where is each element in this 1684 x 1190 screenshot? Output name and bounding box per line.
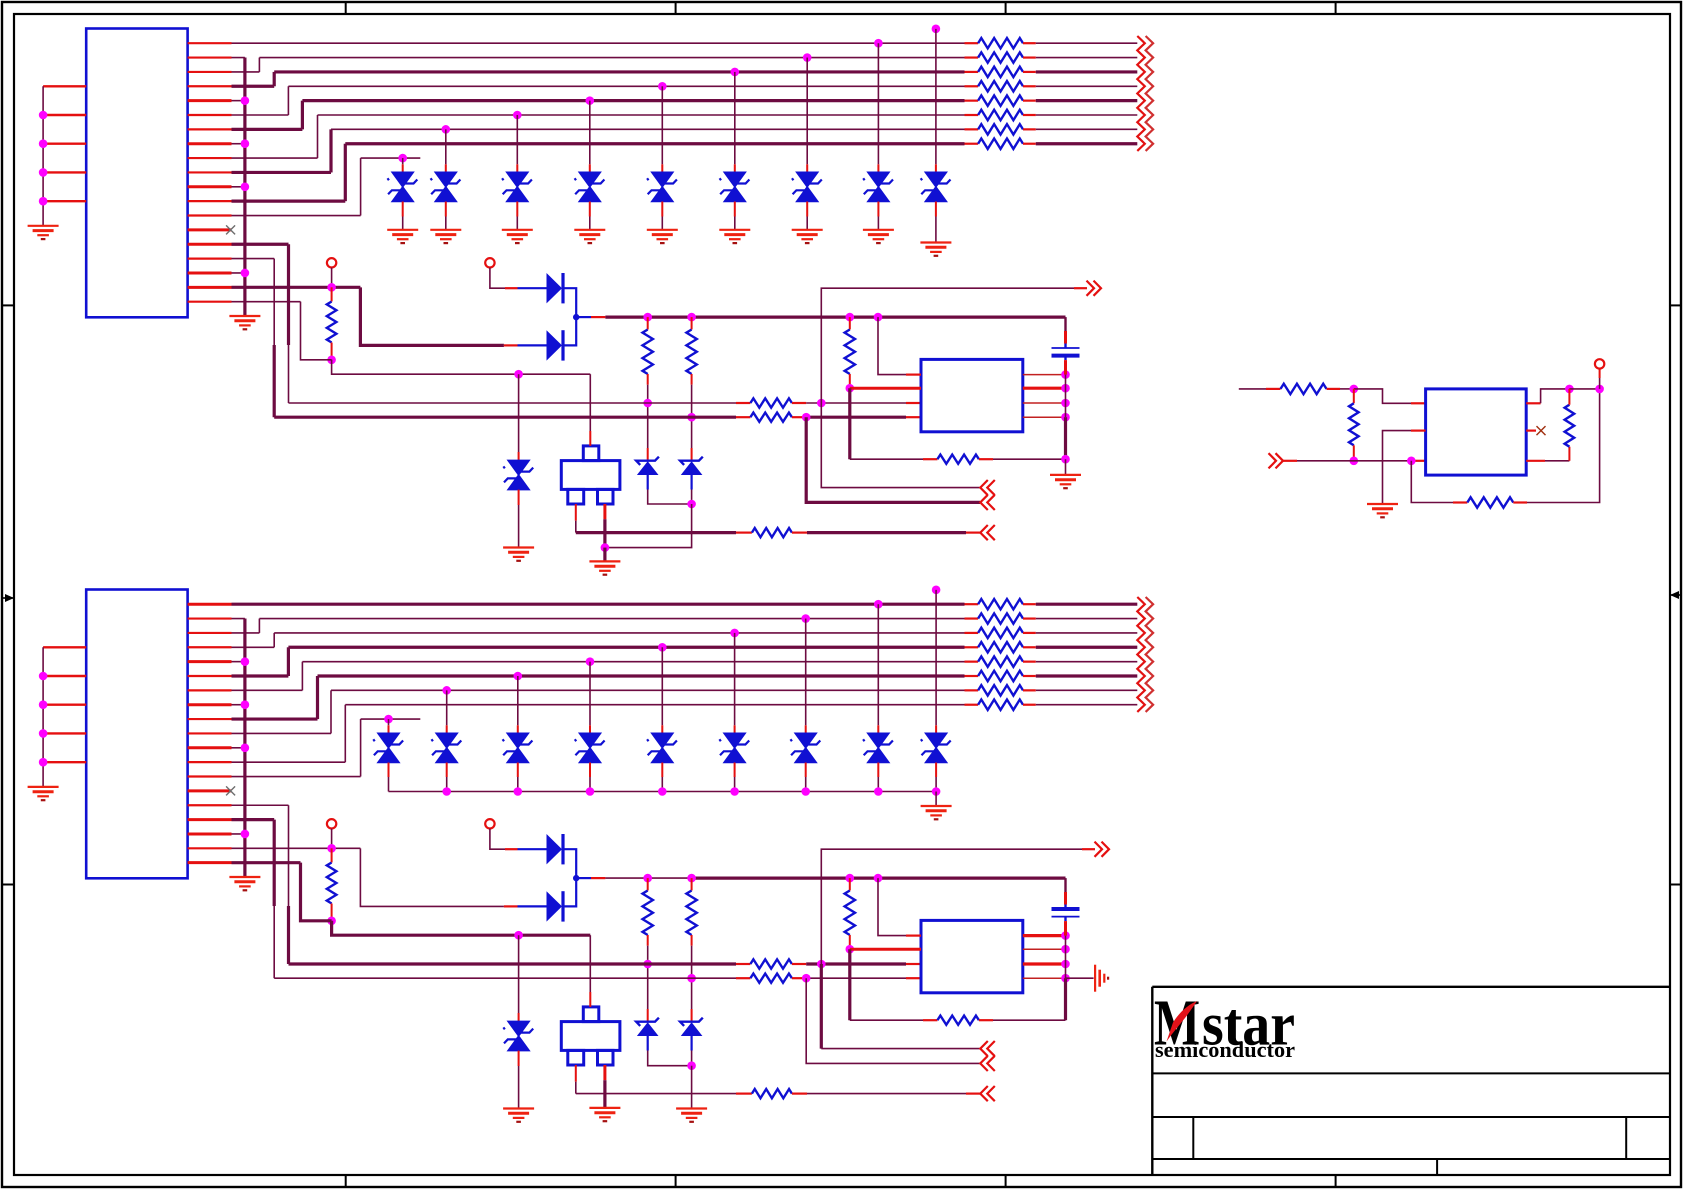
connector J1 xyxy=(86,29,187,318)
wire pin2 rail down xyxy=(848,388,851,459)
wire rail to ground xyxy=(935,792,937,807)
off-page connector rowAb xyxy=(987,1041,995,1056)
resistor R5 lead right xyxy=(1023,100,1036,102)
wire TVS D8 up lead xyxy=(877,43,879,164)
wire rail ground xyxy=(1065,459,1067,475)
resistor R29 lead top xyxy=(331,848,333,862)
off-page bus connector xyxy=(1137,36,1145,151)
wire TVS D29 down lead xyxy=(935,763,937,778)
resistor R21 xyxy=(978,599,1023,609)
resistor R15 lead right xyxy=(792,531,807,533)
junction J1 left rail xyxy=(39,111,48,120)
TVS diode D28 xyxy=(868,733,889,748)
resistor R6 xyxy=(978,110,1023,120)
test point TP5 xyxy=(1595,359,1604,368)
junction out node1 xyxy=(1565,385,1574,394)
junction TVS D3 to row xyxy=(513,111,522,120)
ground of D2 xyxy=(430,229,461,231)
wire D11 anode stub xyxy=(504,344,518,346)
resistor bank R23 lead left xyxy=(965,632,979,634)
wire IC row y978 xyxy=(274,977,736,979)
wire IC row y978 right xyxy=(806,977,906,979)
wire TVS D29 up lead xyxy=(935,590,937,725)
wire J2 pin6 jog up xyxy=(287,647,290,676)
wire cap top xyxy=(1064,317,1066,331)
junction TVS D1 to row xyxy=(398,154,407,163)
TVS diode D12 xyxy=(508,460,529,475)
J1 pin 8 stub xyxy=(188,142,232,145)
wire bus row2 xyxy=(259,618,964,620)
wire diode output row xyxy=(576,316,591,318)
test point TP2 xyxy=(485,258,494,267)
wire J2 pin1 bus row1 xyxy=(232,603,965,606)
resistor bank R26 lead left xyxy=(965,675,979,677)
wire R13 to zener xyxy=(647,385,649,448)
resistor R21b xyxy=(1467,497,1513,507)
wire J1 pin9 run xyxy=(232,157,318,159)
wire feedback rowb xyxy=(850,1019,923,1021)
junction D26 on rail xyxy=(730,787,739,796)
wire TVS D28 down lead xyxy=(877,763,879,778)
wire R33 to zener xyxy=(647,946,649,1009)
wire pin15 downb xyxy=(288,805,290,906)
wire zener common down xyxy=(605,504,692,548)
resistor R9 lead top xyxy=(331,287,333,301)
junction output R30b xyxy=(643,874,652,883)
wire pin16 downb xyxy=(273,820,276,906)
wire J1 pin3 run xyxy=(232,71,260,73)
wire feedback row rightb xyxy=(993,1019,1066,1021)
wire bus row5 xyxy=(302,661,964,663)
junction TVS D26 to row xyxy=(730,629,739,638)
junction rail pin 1b xyxy=(1061,931,1070,940)
J1 pin 1 stub xyxy=(188,42,232,44)
junction box ground xyxy=(601,543,610,552)
junction J1 left rail xyxy=(39,168,48,177)
resistor R37 lead right xyxy=(792,977,806,979)
resistor bank R4 lead left xyxy=(965,85,979,87)
J1 pin 16 stub xyxy=(188,258,232,260)
junction R12 pin2 xyxy=(846,384,855,393)
wire zener D34 bottom xyxy=(690,1036,692,1051)
resistor R34 lead top xyxy=(691,878,693,890)
J1 pin 15 stub xyxy=(188,243,232,246)
wire row6 to off-page xyxy=(1036,674,1138,677)
TVS diode D21 xyxy=(378,733,399,748)
off-page connector rowBb xyxy=(987,1056,995,1071)
resistor R32 xyxy=(845,891,855,936)
resistor R17 lead left xyxy=(736,416,750,418)
junction zener 1 row xyxy=(643,399,652,408)
wire bus row6 xyxy=(318,674,965,677)
resistor R14 lead bottom xyxy=(691,374,693,385)
wire TVS mid downb xyxy=(518,1051,520,1066)
wire TVS D8 down lead xyxy=(877,202,879,217)
junction TVS D21 to row xyxy=(384,715,393,724)
junction rowB branchb xyxy=(802,974,811,983)
J1 left pin stub 5 xyxy=(43,200,86,202)
resistor R37 lead left xyxy=(736,977,750,979)
resistor R19 lead right xyxy=(1327,388,1341,390)
wire J2 pin7 jog up xyxy=(301,662,303,691)
ground of D1 xyxy=(387,229,418,231)
wire TVS D4 up lead xyxy=(589,101,591,165)
zener diode D34 xyxy=(681,1022,703,1036)
wire row5 to off-page xyxy=(1036,661,1138,663)
junction J1 pin11 on ground bus xyxy=(232,186,245,188)
wire box rowb xyxy=(576,1093,736,1095)
ground of J1 bus xyxy=(229,315,260,317)
IC U3 xyxy=(921,920,1023,992)
ground of U2 xyxy=(1367,503,1398,505)
junction D23 on rail xyxy=(514,787,523,796)
resistor R9 lead bottom xyxy=(331,343,333,360)
wire bus row6 xyxy=(318,114,965,116)
wire pin18 to D2b xyxy=(360,848,504,906)
junction output R31b xyxy=(687,874,696,883)
wire node to U2 pin1 xyxy=(1354,389,1411,403)
wire TP2 lead xyxy=(490,268,505,289)
wire row3 to off-page xyxy=(1036,70,1138,73)
wire U1 right pin 1 xyxy=(1023,374,1066,376)
wire J1 pin6 run xyxy=(232,114,289,116)
off-page connector outb xyxy=(1095,842,1103,857)
junction J2 pin17 on ground bus xyxy=(232,833,245,835)
ground of zeners b xyxy=(676,1107,707,1109)
junction R9 bottom xyxy=(327,356,336,365)
junction J1 left rail xyxy=(39,197,48,206)
wire TVS feed row xyxy=(361,718,421,720)
resistor bank R21 lead left xyxy=(965,603,979,605)
junction LDO in node xyxy=(1350,385,1359,394)
wire R34 to zener xyxy=(691,946,693,1009)
resistor R24 xyxy=(978,642,1023,652)
wire U3 right pin 1 xyxy=(1023,934,1066,937)
wire TP3 lead xyxy=(331,829,333,849)
resistor R16 lead right xyxy=(792,402,806,404)
wire pin19 downb xyxy=(301,863,332,921)
ground of D8 xyxy=(863,229,894,231)
off-page connector out xyxy=(1087,281,1095,296)
junction J2 left rail xyxy=(39,729,48,738)
junction J2 pin8 on ground bus xyxy=(232,704,245,706)
wire rowA to off-page xyxy=(821,403,980,488)
ground of D9 xyxy=(920,241,951,243)
wire U1 right pin 2 xyxy=(1023,387,1066,390)
resistor R25 lead right xyxy=(1023,661,1036,663)
wire TVS D25 up lead xyxy=(661,647,663,725)
wire row2 to off-page xyxy=(1036,57,1138,59)
J1 pin 11 stub xyxy=(188,185,232,188)
wire TVS D21 up lead xyxy=(388,719,390,725)
wire box left tab downb xyxy=(575,1065,577,1082)
resistor R32 lead top xyxy=(849,878,851,890)
wire J2 pin10 jog up xyxy=(330,690,332,733)
resistor bank R22 lead left xyxy=(965,617,979,619)
wire TVS D2 up lead xyxy=(445,129,447,164)
junction rail pin 4 xyxy=(1061,413,1070,422)
wire U1 right pin 3 xyxy=(1023,402,1066,404)
wire U2 sense pin xyxy=(1526,460,1545,462)
J2 left pin stub 2 xyxy=(43,675,86,677)
wire J1 pin1 bus row1 xyxy=(232,42,965,44)
wire TVS D22 down lead xyxy=(446,763,448,778)
junction D24 on rail xyxy=(586,787,595,796)
off-page bus connector xyxy=(1137,597,1145,712)
junction D25 on rail xyxy=(658,787,667,796)
wire J2 pin3 run xyxy=(232,632,260,634)
junction TVS D5 to row xyxy=(658,82,667,91)
wire J1 pin9 jog up xyxy=(317,115,319,158)
wire J1 pin10 run xyxy=(232,171,332,174)
junction out node2 xyxy=(1595,385,1604,394)
resistor R15 lead left xyxy=(736,531,752,533)
resistor R27 lead right xyxy=(1023,689,1036,691)
J1 pin 6 stub xyxy=(188,114,232,116)
TVS diode D8 xyxy=(868,172,889,187)
wire IC row y964 right xyxy=(806,962,906,965)
wire railb xyxy=(1065,936,1067,979)
wire J1 pin7 jog up xyxy=(301,101,304,130)
wire row4 to off-page xyxy=(1036,646,1138,649)
wire bus row8 xyxy=(345,704,964,706)
wire feedback row xyxy=(850,458,923,460)
resistor bank R27 lead left xyxy=(965,689,979,691)
resistor R22b lead top xyxy=(1568,389,1570,405)
J1 pin 3 stub xyxy=(188,71,232,73)
no-connect J2 pin14 xyxy=(226,786,235,795)
ground of J2 left xyxy=(28,786,59,788)
J2 left pin stub 4 xyxy=(43,732,86,734)
TVS diode D9 xyxy=(925,172,946,187)
junction TVS midb xyxy=(514,931,523,940)
junction J2 left rail xyxy=(39,700,48,709)
junction TVS D23 to row xyxy=(514,672,523,681)
junction TVS D4 to row xyxy=(586,96,595,105)
junction J2 left rail xyxy=(39,758,48,767)
junction D27 on rail xyxy=(801,787,810,796)
wire TVS D1 down lead xyxy=(402,202,404,217)
J2 pin 1 stub xyxy=(188,603,232,606)
wire bus row2 xyxy=(259,57,964,59)
J2 pin 2 stub xyxy=(188,617,232,619)
wire rowA to off-pageb xyxy=(820,964,823,1049)
J1 pin 18 stub xyxy=(188,286,232,289)
resistor R12 lead top xyxy=(849,317,851,329)
wire J pin15 runb xyxy=(232,804,289,806)
resistor R2 xyxy=(978,52,1023,62)
J2 pin 16 stub xyxy=(188,818,232,821)
TVS diode D4 xyxy=(579,172,600,187)
wire bus row5 xyxy=(302,99,964,102)
resistor R29 lead bottom xyxy=(331,904,333,921)
off-page connector box row xyxy=(987,525,995,540)
TVS diode D6 xyxy=(724,172,745,187)
ground of TVS rail xyxy=(921,805,952,807)
capacitor C1 xyxy=(1052,347,1080,349)
J1 pin 17 stub xyxy=(188,271,232,274)
wire row6 to off-page xyxy=(1036,114,1138,116)
resistor R20 lead bottom xyxy=(1353,445,1355,461)
TVS diode D24 xyxy=(579,733,600,748)
wire J1 pin7 run xyxy=(232,128,303,131)
resistor R13 xyxy=(643,330,653,375)
resistor R4 lead right xyxy=(1023,85,1036,87)
resistor bank R2 lead left xyxy=(965,56,979,58)
wire TVS D6 up lead xyxy=(734,72,736,164)
junction TVS D24 to row xyxy=(586,657,595,666)
junction TVS D28 to row xyxy=(874,600,883,609)
resistor R19 lead left xyxy=(1266,388,1281,390)
J1 pin 9 stub xyxy=(188,157,232,159)
junction rail pin 3 xyxy=(1061,399,1070,408)
junction output senseb xyxy=(874,874,883,883)
resistor R12 xyxy=(845,330,855,375)
resistor R22b xyxy=(1565,405,1575,447)
wire bus row4 xyxy=(288,646,964,649)
junction zener 1 rowb xyxy=(643,960,652,969)
J2 pin 6 stub xyxy=(188,675,232,677)
wire TVS D2 down lead xyxy=(445,202,447,217)
wire TP1 lead xyxy=(331,268,333,288)
junction TVS D6 to row xyxy=(731,68,740,77)
wire row2 to off-page xyxy=(1036,618,1138,620)
junction diode outputsb xyxy=(573,875,579,881)
filter FL2 body xyxy=(561,1022,620,1051)
resistor R24 lead right xyxy=(1023,646,1036,648)
wire J pin18 runb xyxy=(232,847,361,849)
wire J2 pin3 jog up xyxy=(258,619,260,633)
junction J2 left rail xyxy=(39,672,48,681)
wire box row rightb xyxy=(807,1093,966,1095)
filter FL2 tab left xyxy=(568,1050,584,1065)
wire TVS D6 down lead xyxy=(734,202,736,217)
wire J1 pin2 to ground bus xyxy=(232,57,245,59)
junction rail pin 1 xyxy=(1061,370,1070,379)
resistor R17 lead right xyxy=(792,416,806,418)
resistor R21b lead right xyxy=(1513,501,1527,503)
resistor R34 lead bottom xyxy=(691,935,693,946)
wire TVS feed row xyxy=(361,157,421,159)
wire TVS D28 up lead xyxy=(877,604,879,725)
wire TVS mid lead xyxy=(518,374,520,452)
resistor R4 xyxy=(978,81,1023,91)
wire cap topb xyxy=(1064,878,1066,892)
wire bus row3 xyxy=(274,70,964,73)
wire TVS D5 down lead xyxy=(661,202,663,217)
junction TVS D9 to row xyxy=(932,25,941,34)
wire zener D33 bottom xyxy=(647,1036,649,1051)
wire sense to U1 pin1 xyxy=(878,317,906,375)
resistor R16 xyxy=(750,398,792,407)
junction output R11 xyxy=(687,313,696,322)
junction output R32b xyxy=(846,874,855,883)
wire TVS D23 down lead xyxy=(517,763,519,778)
TVS diode D22 xyxy=(436,733,457,748)
junction D28 on rail xyxy=(874,787,883,796)
wire IC row y417 right xyxy=(806,416,906,419)
resistor bank R5 lead left xyxy=(965,100,979,102)
wire bus row4 xyxy=(288,85,964,87)
wire TVS D3 up lead xyxy=(516,115,518,164)
J2 pin 3 stub xyxy=(188,632,232,634)
J1 pin 13 stub xyxy=(188,214,232,216)
resistor bank R1 lead left xyxy=(965,42,979,44)
resistor R12 lead bottom xyxy=(849,374,851,386)
J1 pin 14 stub xyxy=(188,228,232,231)
ground of J1 left xyxy=(28,225,59,227)
wire box left tab down xyxy=(575,504,577,521)
wire bus row7 xyxy=(331,128,965,130)
filter FL1 tab left xyxy=(568,489,584,504)
J2 pin 12 stub xyxy=(188,761,232,763)
junction TVS D29 to row xyxy=(932,586,941,595)
wire J1 pin6 jog up xyxy=(287,86,289,115)
wire enable row xyxy=(1283,460,1297,462)
wire row8 to off-page xyxy=(1036,142,1138,145)
wire J pin16 run xyxy=(232,258,275,260)
resistor R23 lead right xyxy=(1023,632,1036,634)
ground of TVS midb xyxy=(503,1107,534,1109)
resistor R13 lead bottom xyxy=(647,374,649,385)
wire pin19 down xyxy=(301,302,332,360)
wire J2 pin6 run xyxy=(232,674,289,677)
resistor R5 xyxy=(978,95,1023,105)
wire row3 to off-page xyxy=(1036,632,1138,634)
wire IC row y964 xyxy=(289,962,737,965)
resistor R33 lead bottom xyxy=(647,935,649,946)
resistor R14 xyxy=(686,330,696,375)
junction J2 pin11 on ground bus xyxy=(232,747,245,749)
resistor bank R25 lead left xyxy=(965,661,979,663)
diode D11 xyxy=(547,330,563,360)
J1 pin 4 stub xyxy=(188,85,232,87)
junction TVS D27 to row xyxy=(801,614,810,623)
resistor bank R6 lead left xyxy=(965,114,979,116)
junction R20 bottom xyxy=(1350,457,1359,466)
junction TVS D22 to row xyxy=(442,686,451,695)
wire to off-page rightb xyxy=(821,849,1082,964)
resistor R25 xyxy=(978,656,1023,666)
wire LDO input xyxy=(1239,388,1266,390)
wire J pin15 run xyxy=(232,243,289,246)
wire TVS D21 down lead xyxy=(388,763,390,778)
off-page connector box rowb xyxy=(987,1086,995,1101)
wire D30 anode stub xyxy=(505,848,518,850)
wire rail side ground stub b xyxy=(1066,977,1094,979)
ground of rail xyxy=(1050,474,1081,476)
wire pin18 to D2 xyxy=(360,287,504,345)
resistor R26 xyxy=(978,671,1023,681)
junction rail pin 3b xyxy=(1061,960,1070,969)
wire J1 pin13 jog up xyxy=(360,158,362,215)
resistor R33 lead top xyxy=(647,878,649,890)
wire diode output rowb xyxy=(576,877,591,879)
resistor R28 xyxy=(978,700,1023,710)
junction rail pin 2b xyxy=(1061,945,1070,954)
wire box top leadb xyxy=(589,935,591,992)
resistor R35 lead left xyxy=(736,1092,752,1094)
resistor R3 xyxy=(978,67,1023,77)
zener diode D13 xyxy=(637,461,659,475)
TVS diode D7 xyxy=(797,172,818,187)
resistor R35 lead right xyxy=(792,1092,807,1094)
resistor R7 xyxy=(978,124,1023,134)
junction diode outputs xyxy=(573,314,579,320)
resistor R36 lead right xyxy=(792,963,806,965)
TVS diode D29 xyxy=(926,733,947,748)
junction TVS D8 to row xyxy=(874,39,883,48)
